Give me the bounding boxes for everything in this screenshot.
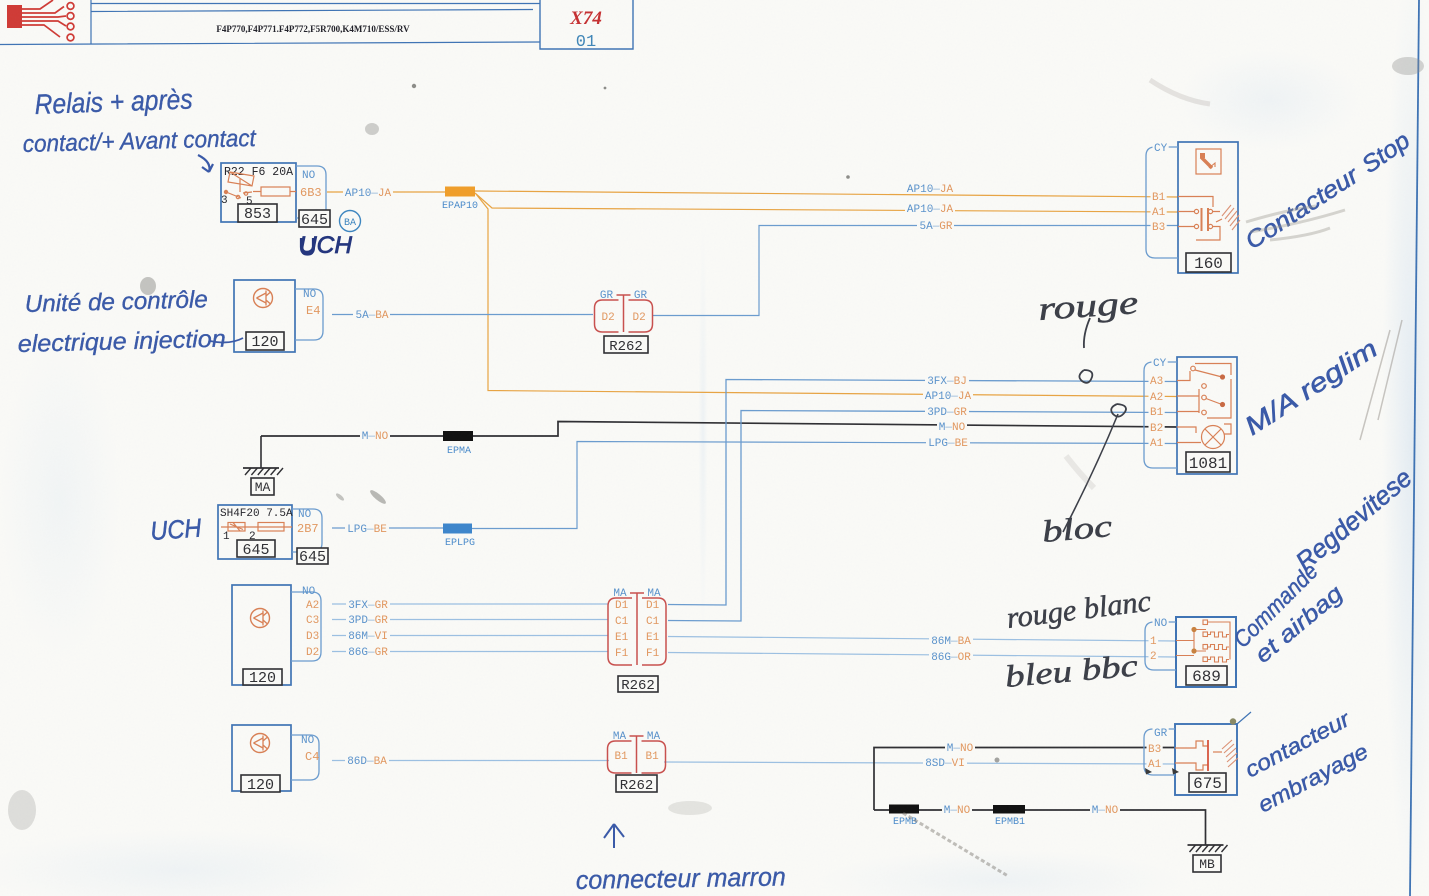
120 pin bracket NO/E4 [295, 289, 323, 340]
splice EPMA [443, 431, 473, 441]
wire label LPG-BE (left) [345, 523, 389, 534]
ref 853 [238, 204, 277, 222]
pin A1 [1151, 206, 1167, 216]
wire 5A-GR connector R262 D2 to 160 pin B3 [653, 226, 1178, 316]
pin 2 [1149, 650, 1159, 660]
wire label 8SD-VI [923, 757, 967, 768]
wire label LPG-BE (1081 A1) [926, 437, 970, 448]
pin A1 [1147, 758, 1163, 768]
689 pin bracket NO/1/2 [1145, 622, 1176, 670]
splice EPLPG [443, 524, 472, 534]
ref 645 inside [237, 540, 275, 557]
harness logo [7, 0, 74, 41]
connector R262 (bottom, MA/B1 B1) [608, 741, 632, 773]
wire label AP10-JA (160 A1) [905, 203, 955, 214]
wire label 5A-GR [917, 220, 954, 231]
wire 86M-BA R262 E1 to commande 689 pin 1 [668, 637, 1176, 642]
wire 3FX-BJ R262 D1 riser to 1081 pin A3 [668, 380, 1177, 606]
ref 675 [1189, 773, 1226, 792]
120 pin bracket NO/A2/C3/D3/D2 [291, 592, 321, 661]
ref 645 (outside) [297, 548, 328, 564]
wire M-NO to 675 pin B3 with ground branch [874, 748, 1175, 811]
160 brake pedal icon [1196, 149, 1221, 174]
wire 86G-OR R262 F1 to commande 689 pin 2 [668, 653, 1176, 658]
pin B3 [1151, 221, 1167, 231]
relay pin bracket NO/6B3 [296, 166, 326, 218]
wire label AP10-JA (1081 A2) [923, 390, 973, 401]
wire LPG-BE fuse 645 2B7 to splice EPLPG and 1081 pin A1 [332, 442, 1177, 529]
wire label AP10-JA (160 B1) [905, 183, 955, 194]
wire label 3FX-BJ [925, 375, 969, 386]
wire label 86M-VI [346, 630, 390, 641]
injection ECU (component 120, middle) [232, 585, 291, 685]
675 corner dot and arrows (scan marks) [1230, 718, 1236, 724]
wire 86G injection ECU D2 to R262 F1 [332, 651, 608, 653]
160 pin bracket CY/B1/A1/B3 [1146, 147, 1178, 258]
wire label 86G-OR [929, 651, 973, 662]
splice EPAP10 [445, 187, 475, 197]
pin B3 [1147, 743, 1163, 753]
1081 pin bracket CY/A3/A2/B1/B2/A1 [1144, 362, 1177, 468]
wire 5A-BA ECU 120 E4 to connector R262 D2 [332, 314, 593, 316]
pin B2 [1149, 422, 1165, 432]
wire label AP10-JA (top) [343, 187, 393, 198]
ref 120 (bottom) [241, 775, 280, 792]
wire AP10-JA from relay 853 to splice EPAP10 [327, 191, 445, 193]
ref 645 (ISM box) [299, 210, 330, 227]
ref 1081 [1186, 452, 1230, 472]
wire 3FX injection ECU A2 to R262 D1 [332, 603, 608, 605]
160 switch contacts [1178, 197, 1222, 241]
wire label M-NO (675 B3) [945, 742, 975, 753]
pin 1 [1149, 635, 1159, 645]
wire M-NO ground run EPMB EPMB1 to ground MB [874, 810, 1206, 845]
wire label 86M-BA [929, 635, 973, 646]
ref 689 [1186, 666, 1227, 685]
circled BA [340, 211, 361, 232]
wire label 86D-BA [345, 755, 389, 766]
wire label M-NO (EPMB) [942, 804, 972, 815]
annotation: arrow to relay [198, 155, 213, 172]
pin B1 [1149, 406, 1165, 416]
wire label M-NO (1081 B2) [937, 421, 967, 432]
pin B1 [1151, 191, 1167, 201]
M/A regulateur switch (component 1081) [1177, 357, 1237, 474]
wire label M-NO (to MB) [1090, 804, 1120, 815]
page border right edge [1410, 0, 1419, 896]
annotation: pen loop on 3PD wire + stroke to bloc [1111, 404, 1126, 417]
pin A2 [1149, 391, 1165, 401]
wire M-NO ground MA to switch 1081 pin B2 [261, 422, 1177, 437]
ref 120 (top) [246, 332, 284, 350]
wire label 86G-GR [346, 646, 390, 657]
wire label M-NO (left) [360, 430, 390, 441]
wire label 3PD-GR [346, 614, 390, 625]
splice EPMB1 [993, 805, 1025, 814]
relay R22 F6 20A (component 853) [221, 163, 296, 222]
wire AP10-JA splice EPAP10 to contacteur stop 160 pin B1 [475, 191, 1178, 197]
120 pin bracket NO/C4 [291, 735, 319, 780]
ground MB [1205, 844, 1207, 846]
wire 86D-BA / 8SD-VI ECU 120 C4 through R262 B1 to contacteur embrayage 675 pin A1 [332, 761, 1175, 765]
pin A3 [1149, 375, 1165, 385]
ref 120 (middle) [243, 669, 282, 685]
UCH fuse box SH4F20 7.5A (component 645) [218, 505, 292, 559]
pin A1 [1149, 437, 1165, 447]
wire 3PD-GR R262 C1 riser to 1081 pin B1 [668, 411, 1177, 622]
injection ECU (component 120, bottom) [232, 725, 291, 791]
injection ECU (component 120, top) [234, 280, 295, 352]
contacteur stop (component 160) [1178, 142, 1238, 273]
title block frame [0, 0, 540, 45]
scan noise overlay (decorative) [0, 0, 1, 1]
splice EPMB [889, 805, 919, 814]
fuse pin bracket NO/2B7 [292, 509, 322, 552]
wire label 3PD-GR (right) [925, 406, 969, 417]
commande regulateur de vitesse (component 689) [1176, 617, 1236, 687]
wire label 3FX-GR [346, 599, 390, 610]
ground MA [260, 436, 262, 468]
wire 3PD injection ECU C3 to R262 C1 [332, 619, 608, 621]
wire AP10-JA splice EPAP10 to contacteur stop 160 pin A1 [475, 193, 1178, 212]
wire label 5A-BA [353, 309, 390, 320]
connector R262 (middle, MA/D1 C1 E1 F1) [608, 598, 632, 665]
wire 86M injection ECU D3 to R262 E1 [332, 635, 608, 637]
sheet number box X74 01 [540, 0, 633, 49]
connector R262 (top, GR/D2) [595, 300, 619, 332]
ref 160 [1186, 253, 1231, 272]
675 pin bracket GR/B3/A1 [1144, 729, 1175, 775]
paper mottling (decorative) [0, 0, 1, 1]
annotation: connecteur marron + arrow [604, 824, 624, 848]
contacteur embrayage (component 675) [1175, 724, 1237, 795]
wire AP10-JA splice EPAP10 down and right to switch 1081 pin A2 [476, 194, 1177, 397]
